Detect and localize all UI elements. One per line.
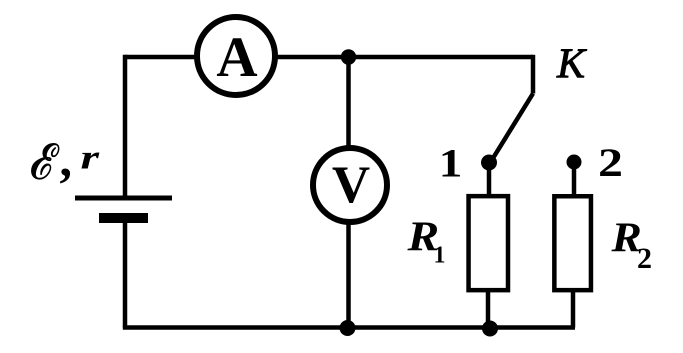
- svg-text:r: r: [81, 138, 101, 176]
- resistor R1 body: [469, 196, 508, 290]
- wire: node 1 to resistor R1 top: [487, 163, 492, 197]
- resistor R2 body: [554, 196, 591, 290]
- label K (switch): [556, 42, 587, 88]
- svg-text:2: 2: [637, 242, 652, 275]
- node 1 junction dot (switch throw 1): [481, 155, 497, 171]
- wire: left rail (battery bottom plate down to bottom-left corner): [123, 223, 128, 328]
- voltmeter V: [313, 148, 387, 222]
- wire: voltmeter branch vertical: [346, 57, 351, 328]
- battery E,r plates: [75, 198, 172, 223]
- svg-text:2: 2: [598, 140, 623, 184]
- svg-text:V: V: [332, 156, 370, 214]
- wire: resistor R1 bottom to bottom rail: [486, 292, 491, 328]
- label 2 (throw 2): [598, 140, 623, 184]
- label R1: [406, 213, 445, 269]
- ammeter A: [197, 17, 275, 95]
- wire: bottom rail: [123, 325, 575, 330]
- wire: switch stub down from top rail: [531, 55, 536, 94]
- svg-text:1: 1: [439, 142, 463, 186]
- label 1 (throw 1): [439, 142, 463, 186]
- node 2 dot (switch throw 2): [567, 155, 582, 170]
- svg-text:1: 1: [434, 243, 446, 269]
- wire: top rail from left corner to switch: [125, 55, 533, 60]
- junction dot: bottom node (voltmeter tap): [340, 320, 356, 336]
- label E (script emf symbol): [31, 144, 59, 180]
- svg-text:A: A: [216, 26, 257, 89]
- wire: left rail (top corner down to battery top plate): [123, 55, 128, 196]
- wire: resistor R2 bottom to bottom rail: [571, 292, 576, 328]
- svg-text:K: K: [556, 42, 587, 88]
- label: comma and r (internal resistance): [60, 131, 101, 187]
- junction dot: top node (voltmeter tap): [341, 49, 356, 64]
- switch K blade: [490, 94, 533, 164]
- wire: node 2 to resistor R2 top: [572, 162, 577, 196]
- svg-text:,: ,: [60, 131, 73, 187]
- label R2: [610, 214, 652, 275]
- junction dot: bottom node (R1 tap): [482, 321, 498, 337]
